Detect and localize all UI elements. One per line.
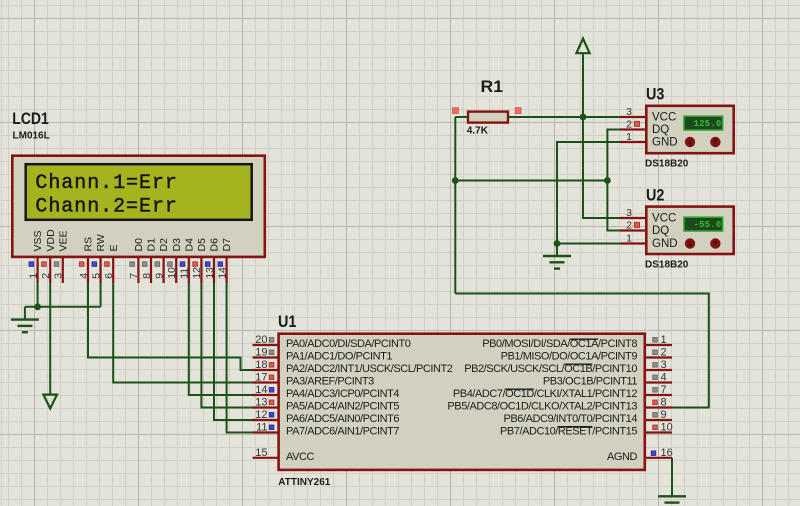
svg-text:D2: D2 [158,238,170,252]
U2 temperature display [684,217,723,231]
svg-text:Chann.1=Err: Chann.1=Err [35,172,177,195]
svg-text:9: 9 [153,273,165,279]
svg-text:D1: D1 [146,238,158,252]
svg-text:LCD1: LCD1 [12,110,49,128]
svg-text:U2: U2 [646,186,664,204]
U1 pin 1 (PB0) [482,334,672,350]
wire DQ to U2 [607,181,620,231]
svg-text:16: 16 [661,447,673,459]
svg-text:D0: D0 [133,238,145,252]
svg-text:9: 9 [661,409,667,421]
U2 pin 2 (DQ) [620,219,669,237]
wire DQ horizontal [455,180,607,182]
U1 pin 10 (PB7) [500,422,673,438]
U2 pin 3 (VCC) [620,207,676,225]
svg-text:12: 12 [255,409,267,421]
node VSS junction (junction) [34,303,41,310]
LCD1 pin 5 (RW) [90,234,107,283]
U1 pin 7 (PB4) [453,384,672,400]
svg-text:13: 13 [255,397,267,409]
U3 pin 2 (DQ) [620,118,669,136]
U1 pin 15 (AVCC) [253,447,315,463]
U2 pin 1 (GND) [620,232,678,250]
svg-text:PA1/ADC1/DO/PCINT1: PA1/ADC1/DO/PCINT1 [286,351,392,363]
svg-text:11: 11 [179,268,191,279]
U1 pin 20 (PA0) [253,334,411,350]
wire VCC vertical [583,53,620,218]
U1 pin 13 (PA5) [253,397,400,413]
svg-text:VCC: VCC [652,112,676,124]
svg-text:125.0: 125.0 [693,119,721,129]
svg-text:ATTINY261: ATTINY261 [278,477,330,488]
svg-text:PB2/SCK/USCK/SCL/OC1B/PCINT10: PB2/SCK/USCK/SCL/OC1B/PCINT10 [464,363,637,375]
U1 pin 12 (PA6) [253,409,400,425]
U1 pin 19 (PA1) [253,347,393,363]
U1 body (ATTINY261) [279,334,645,470]
R1 terminal marker left [453,108,459,114]
U3 temperature display [684,116,723,130]
svg-text:2: 2 [661,347,667,359]
svg-text:D4: D4 [183,238,195,252]
node DQ junction right (junction) [604,177,611,184]
LCD1 pin 10 (D3) [166,238,183,283]
LCD1 screen [26,164,252,220]
svg-text:E: E [108,244,120,251]
wire E to U1 PA3 [113,283,252,383]
wire D7 to U1 PA7 [227,283,253,433]
svg-text:DQ: DQ [652,225,669,237]
U1 pin 11 (PA7) [253,422,400,438]
U1 pin 2 (PB1) [501,347,672,363]
LCD1 body [12,156,264,257]
svg-text:PB6/ADC9/INT0/T0/PCINT14: PB6/ADC9/INT0/T0/PCINT14 [504,413,638,425]
svg-text:3: 3 [626,106,632,118]
wire R1 left stub [455,116,468,118]
svg-text:8: 8 [141,273,153,279]
wire RS to U1 PA2 [88,283,253,370]
svg-text:8: 8 [661,397,667,409]
node sensor GND junction (junction) [554,240,561,247]
svg-text:2: 2 [40,273,52,279]
wire GND U3 [557,142,620,244]
wire DQ to U1 PB5 [455,294,709,408]
svg-text:VEE: VEE [57,230,69,251]
U2 up button [710,238,720,248]
U3 pin 3 (VCC) [620,106,676,124]
wire VSS to ground rail [37,283,39,307]
svg-text:DQ: DQ [652,124,669,136]
U3 down button [685,137,695,147]
U3 pin 1 (GND) [620,131,678,149]
U3 body (DS18B20) [646,106,733,153]
svg-text:Chann.2=Err: Chann.2=Err [35,196,177,219]
svg-text:10: 10 [166,267,178,279]
svg-text:D3: D3 [171,238,183,252]
wire DQ to U3 [607,130,620,181]
node VCC junction (junction) [580,114,587,121]
svg-text:RW: RW [95,234,107,251]
svg-text:15: 15 [255,447,267,459]
svg-text:3: 3 [53,273,65,279]
U1 pin 9 (PB6) [504,409,672,425]
svg-text:4.7K: 4.7K [467,126,489,137]
svg-text:7: 7 [661,384,667,396]
svg-text:AGND: AGND [607,451,637,463]
wire D6 to U1 PA6 [214,283,253,420]
svg-text:7: 7 [128,273,140,279]
svg-text:GND: GND [652,137,678,149]
svg-text:3: 3 [661,359,667,371]
svg-text:14: 14 [255,384,267,396]
svg-text:17: 17 [255,372,267,384]
svg-text:18: 18 [255,359,267,371]
svg-text:R1: R1 [481,78,504,96]
U1 pin 14 (PA4) [253,384,400,400]
LCD1 pin 13 (D6) [204,238,221,283]
svg-text:20: 20 [255,334,267,346]
wire ground rail [25,306,101,308]
svg-text:PA3/AREF/PCINT3: PA3/AREF/PCINT3 [286,376,374,388]
U1 pin 18 (PA2) [253,359,453,375]
resistor R1 [468,112,508,123]
wire AGND down [671,458,673,497]
svg-text:-55.0: -55.0 [693,220,721,230]
svg-text:6: 6 [103,273,115,279]
svg-text:PB3/OC1B/PCINT11: PB3/OC1B/PCINT11 [543,376,637,388]
svg-text:1: 1 [27,273,39,279]
U3 up button [710,137,720,147]
svg-text:VSS: VSS [32,230,44,251]
svg-text:1: 1 [626,131,632,143]
power terminal arrow up (VCC) [576,39,589,54]
wire VDD down [49,283,51,395]
wire RW to ground rail [100,283,102,307]
wire DQ net: R1 left down [454,117,456,294]
node DQ junction left (junction) [452,177,459,184]
svg-text:LM016L: LM016L [13,131,50,142]
svg-text:PA6/ADC5/AIN0/PCINT6: PA6/ADC5/AIN0/PCINT6 [286,413,399,425]
svg-text:DS18B20: DS18B20 [645,259,689,270]
svg-text:RS: RS [83,237,95,252]
svg-text:11: 11 [256,422,267,434]
svg-text:12: 12 [191,267,203,279]
R1 terminal marker right [515,108,521,114]
svg-text:U1: U1 [278,313,296,331]
wire D4 to U1 PA4 [189,283,253,395]
LCD1 pin 6 (E) [103,244,120,283]
U1 pin 17 (PA3) [253,372,375,388]
svg-text:1: 1 [626,232,632,244]
ground U1 analog ground [658,496,686,506]
U1 pin 4 (PB3) [543,372,672,388]
svg-text:D7: D7 [221,238,233,252]
U1 pin 8 (PB5) [447,397,672,413]
svg-text:4: 4 [78,273,90,279]
power terminal arrow down (VDD) [43,395,57,409]
svg-text:DS18B20: DS18B20 [645,159,689,170]
svg-text:10: 10 [661,422,673,434]
svg-text:PB4/ADC7/OC1D/CLKI/XTAL1/PCINT: PB4/ADC7/OC1D/CLKI/XTAL1/PCINT12 [453,388,637,400]
U2 body (DS18B20) [646,207,733,254]
LCD1 pin 14 (D7) [216,238,233,283]
svg-text:14: 14 [216,267,228,279]
ground sensor ground [543,244,571,269]
svg-text:GND: GND [652,238,678,250]
svg-text:PA0/ADC0/DI/SDA/PCINT0: PA0/ADC0/DI/SDA/PCINT0 [286,338,411,350]
ground LCD ground [11,307,39,332]
U1 pin 16 (AGND) [607,447,673,463]
svg-text:VCC: VCC [652,213,676,225]
svg-text:D5: D5 [196,238,208,252]
LCD1 pin 1 (VSS) [27,230,44,283]
LCD1 pin 7 (D0) [128,238,145,283]
wire VCC rail R1 to U3 [508,116,620,118]
wire GND U2 [557,243,620,245]
svg-text:D6: D6 [209,238,221,252]
svg-text:1: 1 [661,334,667,346]
svg-text:13: 13 [204,267,216,279]
LCD1 pin 3 (VEE) [53,230,70,283]
LCD1 pin 11 (D4) [179,238,196,283]
svg-text:PB5/ADC8/OC1D/CLKO/XTAL2/PCINT: PB5/ADC8/OC1D/CLKO/XTAL2/PCINT13 [447,401,637,413]
LCD1 pin 4 (RS) [78,237,95,283]
svg-text:2: 2 [626,219,632,231]
svg-text:PA5/ADC4/AIN2/PCINT5: PA5/ADC4/AIN2/PCINT5 [286,401,399,413]
svg-text:AVCC: AVCC [286,451,314,463]
LCD1 pin 9 (D2) [153,238,170,283]
svg-text:PB1/MISO/DO/OC1A/PCINT9: PB1/MISO/DO/OC1A/PCINT9 [501,351,638,363]
svg-text:3: 3 [626,207,632,219]
svg-text:PA7/ADC6/AIN1/PCINT7: PA7/ADC6/AIN1/PCINT7 [286,426,399,438]
wire D5 to U1 PA5 [201,283,252,408]
svg-text:PA2/ADC2/INT1/USCK/SCL/PCINT2: PA2/ADC2/INT1/USCK/SCL/PCINT2 [286,363,453,375]
svg-text:VDD: VDD [45,229,57,252]
svg-text:PB0/MOSI/DI/SDA/OC1A/PCINT8: PB0/MOSI/DI/SDA/OC1A/PCINT8 [482,338,637,350]
LCD1 pin 12 (D5) [191,238,208,283]
svg-text:U3: U3 [646,86,664,104]
LCD1 pin 8 (D1) [141,238,158,283]
svg-text:4: 4 [661,372,667,384]
svg-text:2: 2 [626,118,632,130]
svg-text:5: 5 [90,273,102,279]
svg-text:PA4/ADC3/ICP0/PCINT4: PA4/ADC3/ICP0/PCINT4 [286,388,399,400]
U1 pin 3 (PB2) [464,359,672,375]
svg-text:19: 19 [255,347,267,359]
U2 down button [685,238,695,248]
LCD1 pin 2 (VDD) [40,229,57,283]
